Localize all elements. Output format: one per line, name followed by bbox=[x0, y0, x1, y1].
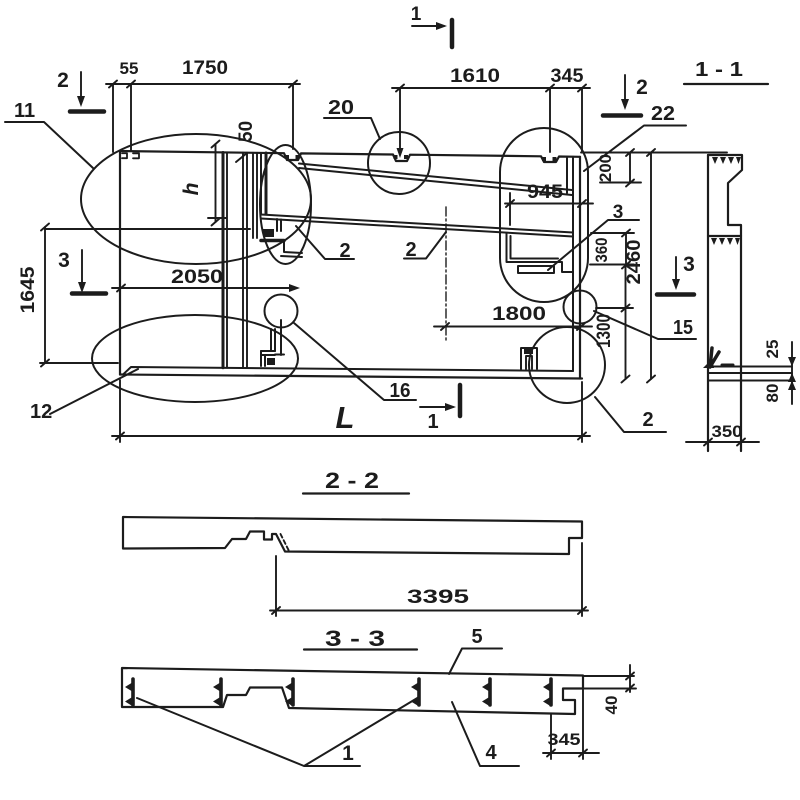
dimension 2460 bbox=[647, 149, 655, 383]
plan right edge outer bbox=[579, 157, 581, 379]
svg-text:350: 350 bbox=[712, 422, 743, 441]
detail oval 12 bbox=[92, 315, 298, 402]
svg-text:4: 4 bbox=[485, 742, 497, 764]
joint line pair 3 bbox=[253, 153, 257, 238]
svg-text:1: 1 bbox=[427, 411, 438, 433]
embedded plate mark bottom bbox=[267, 358, 275, 365]
leader 11 bbox=[5, 122, 93, 168]
detail circle 2 bottom-right bbox=[529, 327, 605, 403]
section 3-3 profile bbox=[122, 668, 583, 714]
svg-text:2 - 2: 2 - 2 bbox=[325, 468, 379, 493]
plan top edge with notches bbox=[120, 151, 580, 162]
section 2-2 profile bbox=[123, 517, 582, 554]
joint line pair 2 bbox=[243, 153, 247, 368]
leader 2 mid-right bbox=[404, 232, 446, 259]
plan bottom edge outer bbox=[120, 375, 582, 379]
dimension 1300 bbox=[596, 265, 633, 383]
section mark 1 bottom bbox=[420, 385, 460, 416]
right recess step bbox=[507, 233, 574, 272]
detail oval 22 bbox=[500, 128, 588, 302]
svg-text:945: 945 bbox=[527, 182, 563, 203]
plan right edge inner bbox=[572, 157, 574, 371]
section mark 3 left bbox=[72, 250, 106, 294]
rebar marks section 3-3 bbox=[125, 679, 551, 706]
svg-text:16: 16 bbox=[390, 380, 411, 402]
joint line pair 1 thick bbox=[222, 153, 225, 368]
dimension 345 bottom bbox=[543, 689, 599, 759]
svg-text:360: 360 bbox=[592, 238, 611, 263]
dimension 50 bbox=[236, 153, 247, 162]
svg-text:1750: 1750 bbox=[182, 58, 228, 79]
detail oval 2 middle bbox=[260, 145, 311, 264]
plan left edge bbox=[119, 151, 121, 375]
detail oval 11 bbox=[81, 134, 311, 264]
dimension 1800 bbox=[434, 323, 592, 330]
svg-text:1645: 1645 bbox=[18, 266, 39, 313]
dimension 25 and 80 bbox=[791, 342, 793, 404]
dimension 3395 bbox=[270, 543, 588, 616]
svg-text:3395: 3395 bbox=[407, 587, 470, 608]
embedded plate 3 outline bbox=[518, 266, 554, 273]
svg-text:1: 1 bbox=[411, 4, 422, 25]
svg-text:2460: 2460 bbox=[624, 240, 645, 285]
leader 16 bbox=[294, 323, 416, 400]
leaders 1 rebar bbox=[137, 697, 419, 766]
section line 1-1 dash-dot bbox=[445, 207, 447, 341]
detail circle 15 bbox=[564, 291, 597, 324]
svg-text:3 - 3: 3 - 3 bbox=[325, 626, 385, 651]
svg-text:3: 3 bbox=[58, 249, 70, 272]
svg-text:345: 345 bbox=[548, 730, 581, 749]
dimension 1610 and 345 top-right bbox=[392, 85, 590, 153]
section mark 2 top-right bbox=[603, 75, 641, 116]
notch corner marks bbox=[285, 155, 408, 159]
svg-text:22: 22 bbox=[651, 103, 675, 125]
svg-text:80: 80 bbox=[763, 384, 782, 403]
svg-text:2050: 2050 bbox=[171, 267, 223, 288]
detail circle 16 bbox=[265, 295, 298, 328]
leader 12 bbox=[50, 369, 138, 414]
svg-text:2: 2 bbox=[339, 240, 350, 262]
section 1-1 top hatch bbox=[712, 157, 741, 164]
svg-text:50: 50 bbox=[236, 121, 257, 142]
inner vertical right top bbox=[566, 158, 568, 193]
dimension 350 bbox=[686, 439, 759, 446]
svg-text:345: 345 bbox=[551, 66, 584, 87]
detail circle 20 bbox=[368, 132, 430, 194]
slanted groove pair A bbox=[299, 164, 572, 196]
svg-text:12: 12 bbox=[30, 401, 52, 423]
svg-text:2: 2 bbox=[405, 239, 416, 261]
plan bottom edge inner with chamfer bbox=[123, 367, 573, 375]
svg-text:40: 40 bbox=[602, 696, 621, 715]
svg-text:1800: 1800 bbox=[492, 304, 546, 325]
svg-text:25: 25 bbox=[763, 340, 782, 359]
svg-text:20: 20 bbox=[328, 97, 354, 119]
dimension 1645 bbox=[40, 224, 250, 367]
dimension 40 bbox=[583, 665, 636, 692]
section 1-1 shelf lines bbox=[708, 367, 792, 381]
svg-text:3: 3 bbox=[613, 202, 624, 223]
svg-text:11: 11 bbox=[14, 100, 35, 122]
svg-text:3: 3 bbox=[683, 253, 695, 276]
svg-text:1: 1 bbox=[342, 742, 354, 765]
leader 5 bbox=[449, 649, 502, 675]
leader 4 bbox=[452, 702, 519, 766]
corner fitting marks left bbox=[122, 153, 139, 158]
svg-text:h: h bbox=[180, 183, 203, 196]
dimension 945 bbox=[505, 193, 593, 225]
leader 20 bbox=[324, 118, 380, 139]
dimension 200 bbox=[581, 149, 727, 187]
embedded plate mark top bbox=[263, 229, 274, 237]
slanted groove pair B bbox=[261, 215, 573, 237]
leader 2 bottom-right bbox=[595, 397, 666, 432]
svg-text:2: 2 bbox=[642, 409, 653, 431]
section 1-1 anchor mark bbox=[710, 348, 719, 367]
dimension 55 and 1750 top-left bbox=[106, 81, 300, 153]
dimension L bbox=[112, 380, 590, 442]
dimension h bbox=[208, 141, 226, 226]
section 1-1 profile outline bbox=[708, 155, 742, 451]
svg-text:200: 200 bbox=[596, 154, 615, 182]
section mark 1 top bbox=[412, 20, 452, 47]
leader 3 right bbox=[548, 220, 639, 270]
section mark 3 right bbox=[657, 257, 694, 295]
leader 2 mid-left bbox=[296, 226, 354, 259]
bottom-right anchor detail bbox=[521, 348, 537, 369]
svg-text:5: 5 bbox=[471, 626, 482, 648]
section 2-2 hidden edge bbox=[281, 534, 290, 551]
svg-text:1300: 1300 bbox=[594, 314, 615, 348]
section mark 2 top-left bbox=[70, 72, 104, 112]
leader 22 bbox=[584, 126, 686, 172]
svg-text:55: 55 bbox=[120, 59, 139, 78]
svg-text:1 - 1: 1 - 1 bbox=[695, 59, 743, 81]
svg-text:15: 15 bbox=[673, 317, 693, 339]
svg-text:2: 2 bbox=[57, 69, 69, 92]
top step structure bbox=[261, 153, 302, 257]
leader 15 bbox=[594, 311, 696, 339]
bottom step structure bbox=[261, 320, 284, 366]
svg-text:L: L bbox=[336, 400, 355, 435]
svg-text:2: 2 bbox=[636, 76, 648, 99]
dimension 2050 bbox=[112, 285, 296, 292]
dimension 360 bbox=[590, 230, 634, 269]
section 1-1 mid hatch bbox=[711, 238, 740, 245]
svg-text:1610: 1610 bbox=[450, 66, 500, 87]
